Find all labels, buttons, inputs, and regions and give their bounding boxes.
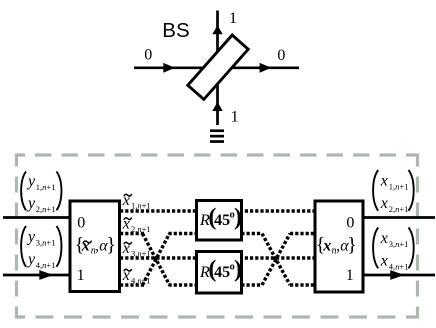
wire horizontal through BS — [134, 66, 299, 69]
dotted wire row 4 left stub — [120, 283, 144, 286]
wire input 1 solid — [3, 216, 70, 219]
svg-text:3,n+1: 3,n+1 — [36, 237, 56, 247]
label R(45) bottom box — [199, 257, 242, 283]
svg-text:y: y — [26, 251, 36, 268]
svg-text:y: y — [26, 228, 36, 245]
svg-text:2,n+1: 2,n+1 — [36, 204, 56, 214]
vector label y3 y4 input bottom — [21, 226, 61, 270]
svg-text:4,n+1: 4,n+1 — [131, 276, 151, 286]
arrow output right port 0 — [260, 63, 272, 73]
arrow output 2 — [390, 270, 404, 280]
svg-text:0: 0 — [346, 215, 354, 232]
svg-text:45: 45 — [214, 264, 230, 281]
svg-text:x: x — [322, 238, 331, 255]
label {xn, alpha} in right box — [316, 234, 357, 257]
crossover right: wire 4 up — [262, 234, 290, 286]
dotted wire row 3 — [120, 256, 314, 259]
svg-text:x: x — [380, 195, 388, 212]
vector label x1 x2 output top — [373, 170, 414, 214]
wire vertical through BS — [216, 11, 219, 126]
svg-text:1: 1 — [229, 10, 237, 27]
svg-text:x: x — [380, 172, 388, 189]
svg-text:}: } — [106, 234, 116, 256]
svg-text:y: y — [26, 195, 36, 212]
svg-text:x: x — [380, 252, 388, 269]
dotted wire row 4 middle — [169, 283, 263, 286]
dashed enclosure bottom edge — [15, 315, 419, 318]
svg-text:2,n+1: 2,n+1 — [389, 204, 409, 214]
beam splitter rectangle — [188, 35, 248, 99]
label R(45) top box — [199, 205, 242, 231]
svg-text:}: } — [347, 234, 357, 256]
dotted wire row 2 left stub — [120, 232, 144, 235]
svg-text:1: 1 — [231, 109, 239, 126]
vector label y1 y2 input top — [21, 172, 61, 215]
svg-text:45: 45 — [214, 212, 230, 229]
svg-text:1,n+1: 1,n+1 — [131, 201, 151, 211]
wire output 1 solid — [364, 216, 435, 219]
svg-text:x: x — [380, 230, 388, 247]
crossover right: wire 2 down — [262, 234, 290, 286]
arrow input left port 0 — [163, 63, 175, 73]
wire label x~3 — [122, 240, 151, 259]
label {x~n, alpha} in left box — [75, 234, 116, 257]
unitary box right — [315, 201, 363, 292]
dotted wire row 2 middle — [169, 232, 263, 235]
dashed enclosure right edge — [416, 154, 419, 319]
svg-text:BS: BS — [162, 19, 189, 42]
dashed enclosure top edge — [15, 153, 419, 156]
crossover left: wire 2 down — [143, 234, 170, 286]
dotted wire row 4 right stub — [290, 283, 314, 286]
rotation box top R(45) — [197, 201, 242, 241]
arrow input 2 — [39, 270, 53, 280]
svg-text:1,n+1: 1,n+1 — [389, 181, 409, 191]
svg-text:1,n+1: 1,n+1 — [36, 182, 56, 192]
svg-text:x: x — [81, 238, 90, 255]
svg-text:0: 0 — [277, 47, 285, 64]
svg-text:): ) — [234, 257, 242, 283]
wire output 2 solid — [364, 274, 435, 277]
svg-text:3,n+1: 3,n+1 — [389, 239, 409, 249]
arrow output top port 1 — [212, 25, 222, 34]
rotation box bottom R(45) — [197, 252, 242, 294]
svg-text:0: 0 — [144, 47, 152, 64]
unitary box left — [70, 201, 120, 292]
svg-text:4,n+1: 4,n+1 — [389, 261, 409, 271]
svg-text:3,n+1: 3,n+1 — [131, 249, 151, 259]
wire label x~1 — [122, 192, 151, 211]
dotted wire row 2 right stub — [290, 232, 314, 235]
svg-text:0: 0 — [77, 215, 85, 232]
vacuum symbol (triple bar) — [210, 129, 224, 143]
dashed enclosure left edge — [15, 154, 18, 319]
wire label x~2 — [122, 216, 151, 235]
crossover left: wire 4 up — [143, 234, 170, 286]
arrow input bottom port 1 — [212, 102, 222, 111]
vector label x3 x4 output bottom — [373, 228, 414, 272]
svg-text:1: 1 — [346, 267, 354, 284]
wire label x~4 — [122, 267, 151, 286]
dotted wire row 1 — [120, 209, 314, 212]
svg-text:4,n+1: 4,n+1 — [36, 260, 56, 270]
svg-text:y: y — [26, 173, 36, 190]
svg-text:1: 1 — [77, 267, 85, 284]
wire input 2 solid — [3, 274, 70, 277]
svg-text:): ) — [234, 205, 242, 231]
svg-text:2,n+1: 2,n+1 — [131, 224, 151, 234]
